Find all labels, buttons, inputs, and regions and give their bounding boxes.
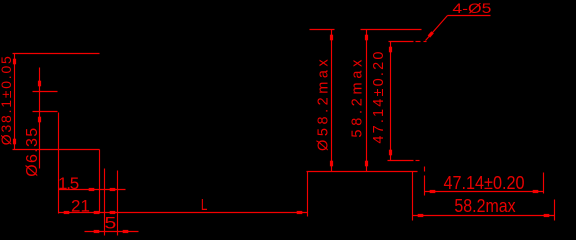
- svg-text:21: 21: [71, 196, 90, 215]
- svg-text:4-Ø5: 4-Ø5: [452, 1, 491, 16]
- svg-text:58.2max: 58.2max: [454, 196, 515, 216]
- svg-text:5: 5: [104, 213, 116, 232]
- svg-text:47.14±0.20: 47.14±0.20: [444, 173, 525, 193]
- svg-text:Ø38.1±0.05: Ø38.1±0.05: [0, 56, 14, 145]
- svg-text:L: L: [201, 197, 208, 214]
- svg-text:58.2max: 58.2max: [350, 59, 366, 138]
- svg-text:1.5: 1.5: [58, 174, 79, 193]
- svg-text:Ø6.35: Ø6.35: [24, 128, 41, 177]
- svg-text:Ø58.2max: Ø58.2max: [316, 58, 332, 151]
